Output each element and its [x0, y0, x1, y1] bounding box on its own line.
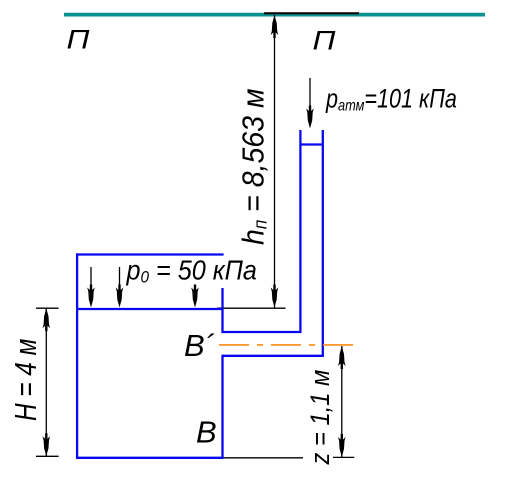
svg-text:H = 4 м: H = 4 м — [8, 339, 42, 421]
svg-text:П: П — [313, 26, 337, 56]
svg-text:p0 = 50 кПа: p0 = 50 кПа — [126, 254, 257, 286]
svg-text:П: П — [67, 25, 91, 55]
svg-text:hп = 8,563 м: hп = 8,563 м — [236, 89, 270, 245]
svg-text:B: B — [196, 415, 217, 450]
svg-text:B´: B´ — [184, 328, 215, 363]
svg-text:pатм=101 кПа: pатм=101 кПа — [325, 84, 457, 115]
svg-text:z = 1,1 м: z = 1,1 м — [306, 370, 336, 466]
